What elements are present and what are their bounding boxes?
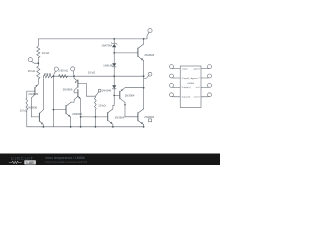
svg-text:gain 8: gain 8 — [194, 68, 201, 70]
svg-text:10 kΩ: 10 kΩ — [20, 108, 27, 112]
flag pin5 — [208, 93, 212, 97]
flag pin6 — [208, 83, 212, 87]
pin 3 stub — [173, 86, 180, 88]
junction dot top rail / middle column — [113, 38, 115, 40]
wire Q8 collector down — [124, 102, 126, 117]
node flag C (gain pin 2) — [71, 67, 75, 71]
wire node to Q7 collector — [113, 95, 114, 109]
pin 2 stub — [173, 77, 180, 79]
svg-text:1N4148: 1N4148 — [103, 63, 113, 67]
wire Q6 emitter to output node — [143, 61, 145, 77]
svg-text:2N3906: 2N3906 — [63, 88, 73, 92]
resistor R4 100 ohm (main line left) — [43, 75, 52, 78]
junction dot main/Q3 — [73, 75, 75, 77]
zener diode D3 1N4734A — [111, 43, 117, 45]
svg-text:2N3904: 2N3904 — [125, 93, 135, 97]
svg-text:2 input(-): 2 input(-) — [182, 77, 191, 80]
junction dot 50k/base line — [95, 116, 97, 118]
wire zener to branch — [113, 47, 115, 53]
svg-text:bypass 7: bypass 7 — [191, 78, 201, 80]
svg-text:1 gain: 1 gain — [182, 68, 189, 70]
wire Q2 emitter to rail — [42, 125, 44, 127]
footer bar — [0, 154, 220, 166]
svg-text:1N4148: 1N4148 — [102, 89, 112, 93]
wire Q7 emitter to rail — [112, 124, 114, 127]
svg-text:LM386: LM386 — [187, 83, 194, 85]
svg-text:2N3904: 2N3904 — [144, 115, 154, 119]
wire Q7 base line — [81, 116, 108, 118]
svg-text:2N3906: 2N3906 — [27, 106, 37, 110]
svg-text:10 kΩ: 10 kΩ — [98, 104, 105, 108]
svg-text:10 kΩ: 10 kΩ — [88, 71, 95, 75]
svg-text:2N3904: 2N3904 — [115, 116, 125, 120]
wire left column top — [37, 39, 39, 46]
svg-text:2N3904: 2N3904 — [144, 53, 154, 57]
pin 8 stub — [201, 68, 208, 70]
transistor Q2 2N3906 (left input pair lower) — [31, 116, 39, 118]
transistor Q7 2N3904 (gain stage) — [107, 113, 109, 121]
wire Q1 collector down — [30, 98, 32, 117]
junction dot main/left vertical — [53, 75, 55, 77]
wire Q3 base net down to input node — [86, 84, 95, 97]
wire branch to Q6 base — [114, 52, 138, 54]
wire top supply rail — [38, 38, 147, 40]
flag pin8 — [208, 65, 212, 69]
IC pin name labels — [182, 68, 201, 98]
svg-text:3 input(+): 3 input(+) — [182, 86, 192, 89]
wire between R1 and R2 — [37, 57, 39, 66]
resistor R3 50k (far left) — [26, 91, 28, 127]
svg-text:15 kΩ: 15 kΩ — [28, 69, 35, 73]
svg-text:1N4734A: 1N4734A — [101, 44, 112, 48]
pin 1 stub — [173, 68, 180, 70]
wire Q8 emitter to output — [125, 87, 144, 89]
wire main to D2 — [113, 76, 115, 85]
transistor Q8 2N3904 (upper driver of lower output) — [114, 94, 120, 96]
transistor Q3 2N3906 (right input pair upper) — [74, 76, 78, 81]
node flag VS (supply) — [148, 29, 152, 33]
svg-text:4 ground: 4 ground — [182, 96, 191, 99]
diode D1 1N4148 — [112, 63, 116, 66]
wire bottom ground rail — [27, 126, 144, 128]
transistor Q5 2N3904 (current mirror) — [53, 109, 66, 111]
transistor Q1 2N3906 (left input pair upper) — [35, 84, 38, 87]
wire Q6 collector to rail — [143, 39, 145, 44]
wire R2 to Q1 — [37, 79, 39, 84]
resistor R5 1.80k (main line) — [58, 75, 67, 78]
wire Q5 emitter to rail — [70, 117, 72, 127]
wire R6 bottom to rail — [94, 117, 96, 127]
svg-text:LAB: LAB — [26, 161, 34, 165]
footer logo LAB chip — [24, 160, 36, 164]
flag pin1 — [170, 65, 174, 69]
pin 5 stub — [201, 96, 208, 98]
svg-text:vout 5: vout 5 — [194, 96, 201, 99]
flag pin4 — [170, 93, 174, 97]
wire Q4 emitter down to rail — [80, 99, 82, 127]
transistor Q4 2N3906 (right input pair lower) — [74, 90, 78, 93]
wire Q4 collector to mirror — [71, 100, 74, 102]
svg-text:2N3906: 2N3906 — [28, 92, 38, 96]
svg-text:2N3904: 2N3904 — [72, 112, 82, 116]
junction dot column/flagA — [37, 62, 39, 64]
wire left vertical to rail — [52, 76, 54, 127]
wire column to D1 — [113, 53, 115, 63]
footer logo resistor glyph — [9, 161, 22, 163]
pin 6 stub — [201, 86, 208, 88]
node flag OUT — [148, 72, 152, 76]
svg-text:1.80 kΩ: 1.80 kΩ — [58, 68, 68, 72]
diode D2 1N4148 — [112, 85, 116, 88]
svg-text:10 kΩ: 10 kΩ — [42, 51, 49, 55]
transistor Q6 2N3904 (upper output) — [137, 48, 139, 56]
wire Q9 emitter to rail end — [143, 125, 145, 127]
resistor R6 50k (input shunt) — [95, 96, 97, 117]
node flag D (input+) — [98, 89, 101, 92]
IC U1 LM386 body — [180, 66, 201, 108]
flag pin3 — [170, 83, 174, 87]
resistor R1 10k (left column upper) — [37, 46, 40, 58]
wire Q2 collector riser to main line — [42, 76, 44, 110]
node flag A (gain) — [28, 58, 32, 62]
part label Q9 tiny box — [149, 119, 152, 122]
node flag B (gain pin) — [54, 67, 58, 71]
svg-text:o: o — [150, 74, 151, 76]
wire D2 to Q8 base node — [113, 89, 115, 96]
pin 4 stub — [173, 96, 180, 98]
pin 7 stub — [201, 77, 208, 79]
flag pin2 — [170, 74, 174, 78]
resistor R2 15k (left column lower) — [37, 66, 40, 79]
wire Q8 collector to Q9 base — [125, 116, 138, 118]
flag pin7 — [208, 74, 212, 78]
transistor Q9 2N3904 (lower output) — [137, 113, 139, 121]
svg-text:http://circuitlab.com/c/emq373: http://circuitlab.com/c/emq3733 — [46, 160, 88, 164]
wire Q9 collector to output node — [143, 88, 145, 109]
svg-text:100 Ω: 100 Ω — [44, 72, 52, 76]
wire middle column to zener — [113, 39, 115, 44]
wire D1 to main line — [113, 67, 115, 76]
junction dot branch — [113, 52, 115, 54]
wire main feedback line — [53, 75, 144, 77]
